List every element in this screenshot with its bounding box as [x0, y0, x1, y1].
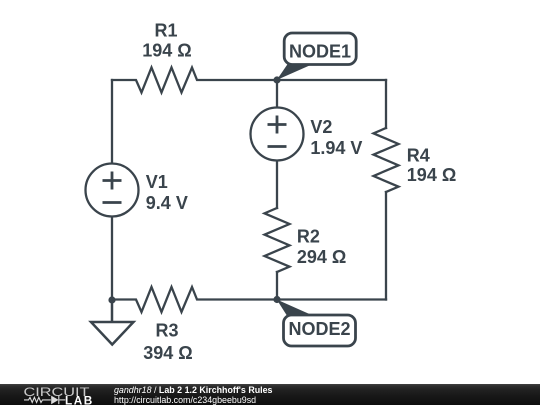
node junction dot NODE1: [273, 76, 280, 83]
svg-text:NODE1: NODE1: [289, 42, 351, 62]
node NODE1 flag tail: [277, 64, 314, 81]
wire: right vertical top (NODE1 corner to R4): [385, 80, 387, 128]
resistor R1 (top wire with zigzag): [112, 68, 386, 93]
svg-text:V1: V1: [146, 172, 168, 192]
resistor R2 (middle vertical zigzag): [265, 208, 290, 272]
wire: R2 to NODE2: [276, 272, 278, 300]
ground: [91, 303, 134, 345]
svg-text:1.94 V: 1.94 V: [310, 138, 362, 158]
svg-text:LAB: LAB: [65, 393, 94, 405]
svg-text:194 Ω: 194 Ω: [407, 165, 456, 185]
wire: right vertical bottom (R4 to bottom wire): [385, 192, 387, 300]
voltage source V1: [86, 164, 139, 217]
svg-text:R4: R4: [407, 146, 430, 166]
node NODE2 flag box: [284, 315, 356, 346]
resistor R3 (bottom wire with zigzag): [112, 287, 386, 312]
node NODE2 flag tail: [277, 300, 315, 317]
svg-text:R2: R2: [297, 226, 320, 246]
node NODE1 flag box: [284, 33, 356, 65]
svg-text:9.4 V: 9.4 V: [146, 193, 188, 213]
svg-text:394 Ω: 394 Ω: [143, 343, 192, 363]
wire: left vertical top (node A to V1): [111, 80, 113, 164]
svg-text:R1: R1: [154, 20, 177, 40]
node junction dot NODE2: [273, 296, 280, 303]
voltage source V2: [251, 108, 304, 161]
CircuitLab logo: [0, 384, 100, 405]
resistor R4 (right vertical zigzag): [374, 128, 399, 192]
wire: V2 to R2: [276, 161, 278, 209]
credit text: [114, 386, 273, 405]
wire: left vertical bottom (V1 to bottom-left node): [111, 217, 113, 301]
node junction dot ground: [108, 296, 115, 303]
footer bar: [0, 384, 540, 405]
wire: middle vertical from NODE1 to V2: [276, 80, 278, 108]
svg-text:R3: R3: [155, 321, 178, 341]
svg-text:294 Ω: 294 Ω: [297, 247, 346, 267]
svg-text:194 Ω: 194 Ω: [142, 41, 191, 61]
svg-text:NODE2: NODE2: [288, 319, 350, 339]
svg-text:V2: V2: [310, 117, 332, 137]
